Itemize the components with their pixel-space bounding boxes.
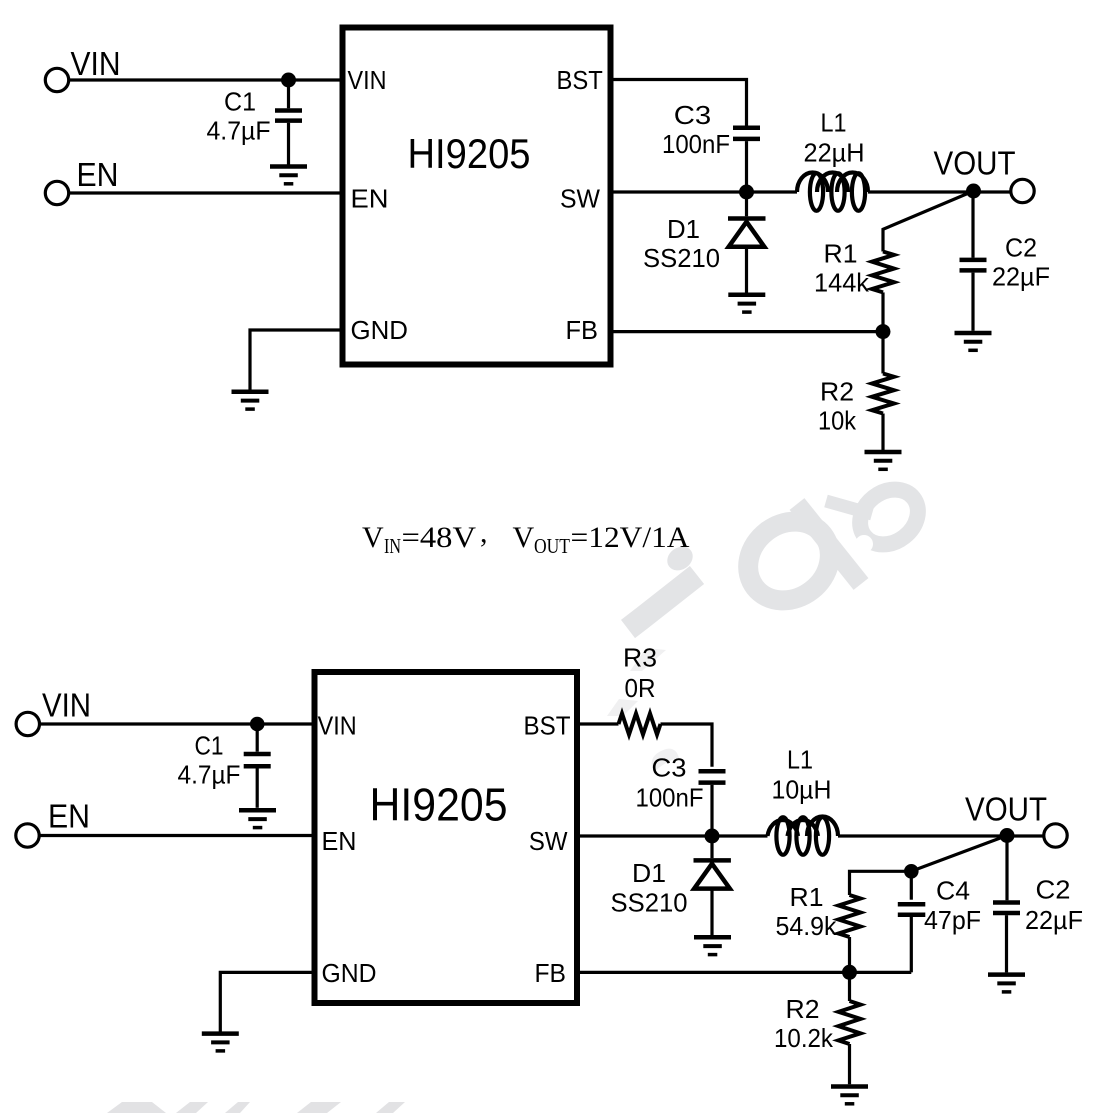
- wire EN terminal to IC (bottom): [39, 834, 312, 837]
- node VOUT (bottom): [1000, 828, 1015, 843]
- svg-text:FB: FB: [566, 315, 599, 345]
- svg-text:C4: C4: [936, 876, 970, 906]
- wire SW pin to L1 (top): [614, 190, 798, 193]
- svg-text:22µF: 22µF: [992, 262, 1050, 292]
- svg-text:22µF: 22µF: [1025, 905, 1083, 935]
- svg-text:54.9k: 54.9k: [776, 911, 838, 941]
- watermark fragment: letter e: [849, 478, 929, 556]
- wire GND pin (top): [250, 330, 340, 390]
- svg-text:EN: EN: [322, 826, 357, 856]
- ground IC GND (bottom): [202, 1034, 239, 1051]
- svg-text:144k: 144k: [814, 268, 870, 298]
- svg-text:VIN: VIN: [42, 687, 91, 724]
- svg-text:SW: SW: [560, 184, 600, 214]
- watermark fragment: letter i dot: [663, 542, 698, 576]
- terminal VIN (bottom): [16, 712, 39, 735]
- svg-text:R3: R3: [623, 643, 657, 673]
- node FB junction (bottom): [842, 965, 857, 980]
- capacitor C3 (bottom): [699, 771, 726, 836]
- wire R1 to FB node (top): [881, 292, 884, 331]
- terminal EN (top): [45, 181, 68, 204]
- watermark fragment: letter d stem: [797, 504, 861, 584]
- wire VOUT to C2 (bottom): [1005, 836, 1008, 901]
- svg-text:D1: D1: [667, 214, 700, 244]
- node VIN/C1 junction (bottom): [250, 717, 265, 732]
- watermark fragment: faint blobs near R3: [607, 648, 679, 772]
- svg-text:C3: C3: [652, 753, 687, 783]
- watermark fragment: letter i stem: [628, 575, 697, 629]
- diode D1 SS210 (bottom): [694, 836, 731, 935]
- svg-text:V: V: [362, 521, 384, 554]
- svg-text:R1: R1: [790, 882, 824, 912]
- svg-text:10µH: 10µH: [772, 775, 832, 805]
- svg-text:IN: IN: [384, 534, 401, 558]
- terminal VOUT (top): [1011, 179, 1034, 202]
- diode D1 SS210 (top): [728, 192, 766, 293]
- wire BST pin to C3 (top): [614, 80, 747, 127]
- svg-text:C1: C1: [224, 87, 256, 117]
- wire EN terminal to IC (top): [68, 191, 339, 194]
- svg-text:R2: R2: [820, 377, 854, 407]
- formula VIN=48V, VOUT=12V/1A: [362, 516, 690, 558]
- svg-text:100nF: 100nF: [636, 783, 704, 813]
- capacitor C4 (bottom): [898, 871, 926, 972]
- svg-text:L1: L1: [787, 745, 813, 775]
- watermark fragment: bottom edge letter tops: [107, 1102, 405, 1113]
- svg-text:V: V: [513, 521, 535, 554]
- svg-text:C2: C2: [1036, 875, 1071, 905]
- wire R2 to ground (top): [881, 414, 884, 451]
- svg-text:R1: R1: [824, 239, 858, 269]
- svg-text:VIN: VIN: [71, 45, 121, 82]
- svg-text:VOUT: VOUT: [965, 791, 1047, 828]
- inductor L1 (bottom): [768, 817, 839, 855]
- ground R2 (top): [865, 452, 902, 469]
- svg-text:0R: 0R: [625, 673, 656, 703]
- svg-text:,: ,: [480, 516, 488, 549]
- svg-text:FB: FB: [535, 958, 567, 988]
- wire node to R1 (bottom): [850, 871, 912, 895]
- ground C1 (top): [270, 167, 307, 184]
- svg-text:HI9205: HI9205: [408, 130, 531, 177]
- ground C2 (top): [955, 333, 992, 350]
- op-amp U1 IC box HI9205 (top): [343, 28, 611, 365]
- wire VIN terminal to IC (bottom): [39, 722, 312, 725]
- resistor R1 (bottom): [839, 895, 861, 937]
- capacitor C2 (top): [960, 260, 987, 331]
- node SW junction (top): [739, 185, 754, 200]
- wire FB node to R2 (top): [881, 332, 884, 374]
- node C4/R1 junction (bottom): [904, 864, 919, 879]
- wire SW pin to L1 (bottom): [580, 834, 768, 837]
- svg-text:VOUT: VOUT: [934, 145, 1016, 182]
- resistor R2 (top): [872, 374, 894, 414]
- wire FB node to R2 (bottom): [848, 972, 851, 1001]
- ground D1 (bottom): [694, 937, 731, 954]
- node VIN/C1 junction (top): [281, 73, 296, 88]
- wire VOUT to R1 diagonal (top): [883, 191, 974, 252]
- watermark fragment: letter d bowl: [732, 505, 845, 616]
- svg-text:SW: SW: [529, 826, 568, 856]
- terminal VIN (top): [45, 68, 68, 91]
- ground D1 (top): [728, 295, 765, 312]
- node FB junction (top): [876, 324, 891, 339]
- wire FB pin (bottom): [580, 971, 911, 974]
- wire R3 to C3 (bottom): [661, 724, 713, 767]
- svg-text:C3: C3: [674, 100, 712, 130]
- terminal VOUT (bottom): [1044, 824, 1067, 847]
- svg-text:VIN: VIN: [318, 711, 357, 741]
- wire R2 to ground (bottom): [848, 1044, 851, 1084]
- svg-text:D1: D1: [632, 858, 666, 888]
- svg-text:VIN: VIN: [348, 65, 387, 95]
- svg-text:47pF: 47pF: [924, 905, 981, 935]
- svg-text:R2: R2: [786, 994, 820, 1024]
- node VOUT (top): [966, 184, 981, 199]
- resistor R3 (bottom): [619, 714, 661, 735]
- capacitor C2 (bottom): [993, 903, 1020, 973]
- svg-text:10.2k: 10.2k: [774, 1023, 834, 1053]
- wire R1 to FB node (bottom): [848, 937, 851, 972]
- svg-text:GND: GND: [351, 315, 409, 345]
- inductor L1 (top): [797, 173, 868, 211]
- resistor R1 (top): [872, 252, 894, 293]
- node SW junction (bottom): [705, 829, 720, 844]
- ground C1 (bottom): [239, 810, 276, 827]
- svg-text:=12V/1A: =12V/1A: [571, 521, 690, 554]
- ground C2 (bottom): [988, 975, 1025, 992]
- svg-text:GND: GND: [322, 958, 377, 988]
- capacitor C3 (top): [733, 128, 760, 192]
- ground R2 (bottom): [831, 1087, 868, 1104]
- svg-text:HI9205: HI9205: [370, 778, 508, 830]
- wire VOUT to C2 (top): [971, 191, 974, 258]
- wire BST pin to R3 (bottom): [580, 722, 619, 725]
- svg-text:OUT: OUT: [534, 534, 570, 558]
- terminal EN (bottom): [16, 824, 39, 847]
- wire L1 to VOUT (bottom): [838, 834, 1044, 837]
- capacitor C1 (bottom): [244, 724, 271, 808]
- wire VOUT diagonal to C4 node (bottom): [911, 836, 1007, 872]
- wire VIN terminal to IC (top): [68, 78, 339, 81]
- svg-text:EN: EN: [351, 184, 389, 214]
- svg-text:BST: BST: [524, 711, 571, 741]
- svg-text:L1: L1: [821, 108, 847, 138]
- svg-text:SS210: SS210: [643, 243, 720, 273]
- wire FB pin (top): [614, 330, 884, 333]
- svg-text:EN: EN: [77, 156, 119, 193]
- ground IC GND (top): [232, 392, 269, 409]
- svg-text:10k: 10k: [818, 406, 857, 436]
- svg-text:=48V: =48V: [402, 521, 477, 554]
- svg-text:EN: EN: [48, 798, 90, 835]
- resistor R2 (bottom): [839, 1001, 861, 1044]
- svg-text:SS210: SS210: [611, 888, 688, 918]
- svg-text:4.7µF: 4.7µF: [207, 116, 271, 146]
- op-amp U2 IC box HI9205 (bottom): [315, 672, 578, 1003]
- svg-text:22µH: 22µH: [804, 138, 865, 168]
- svg-text:100nF: 100nF: [662, 129, 730, 159]
- svg-text:4.7µF: 4.7µF: [178, 760, 241, 790]
- svg-text:C1: C1: [195, 731, 224, 761]
- capacitor C1 (top): [275, 80, 302, 166]
- svg-text:C2: C2: [1005, 233, 1037, 263]
- wire L1 to VOUT (top): [868, 190, 1011, 193]
- svg-text:BST: BST: [557, 65, 603, 95]
- wire GND pin (bottom): [220, 972, 311, 1031]
